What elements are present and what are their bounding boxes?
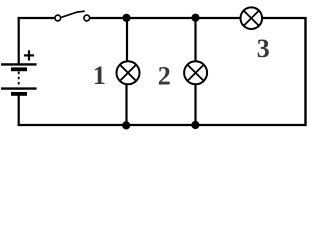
lamp L2 xyxy=(184,61,207,84)
wire bottom rail xyxy=(18,124,307,126)
wire branch 1 lower xyxy=(125,85,127,126)
wire branch 2 lower xyxy=(194,85,196,126)
switch S1 lever (open) xyxy=(61,11,84,17)
wire left side lower (battery to bottom rail) xyxy=(18,95,20,126)
svg-text:1: 1 xyxy=(93,61,106,90)
battery B1 cell 2 long plate xyxy=(1,87,37,89)
wire top rail: corner to switch left contact xyxy=(18,17,55,19)
svg-text:3: 3 xyxy=(257,34,270,63)
wire top rail: switch right contact to lamp 3 xyxy=(90,17,240,19)
battery dashed link between cells xyxy=(18,72,20,88)
node junction top-left xyxy=(122,14,130,22)
battery B1 cell 1 short thick plate xyxy=(11,67,27,71)
wire branch 1 upper xyxy=(126,18,128,62)
lamp L1 xyxy=(117,61,140,84)
wire branch 2 upper xyxy=(194,18,196,62)
switch S1 left contact xyxy=(55,15,61,21)
battery B1 plus label xyxy=(24,50,34,60)
battery B1 cell 1 long plate xyxy=(1,63,37,65)
svg-text:2: 2 xyxy=(158,62,171,91)
battery B1 cell 2 short thick plate xyxy=(11,92,27,96)
node junction bottom-right xyxy=(191,121,199,129)
wire right side xyxy=(304,17,306,126)
lamp L3 xyxy=(241,7,263,29)
node junction bottom-left xyxy=(122,121,130,129)
switch S1 right contact xyxy=(84,15,90,21)
wire left side upper (corner to battery) xyxy=(18,17,20,64)
node junction top-right xyxy=(191,14,199,22)
wire top rail: lamp 3 to top-right corner xyxy=(263,17,307,19)
